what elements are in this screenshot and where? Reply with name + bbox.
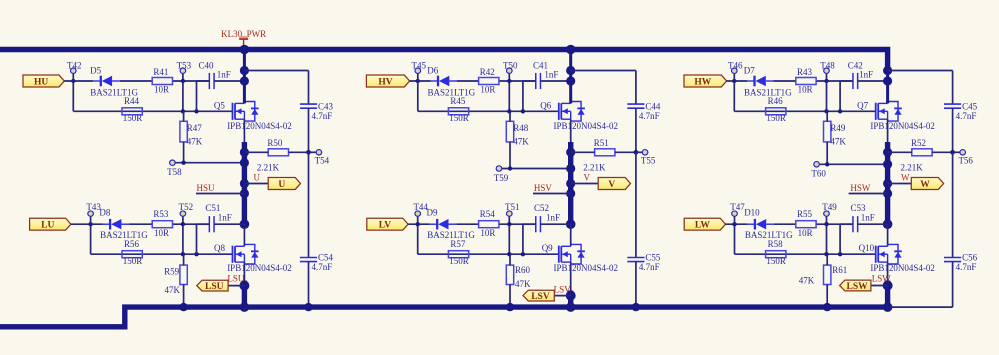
resistor R56 150R [122, 239, 142, 266]
wire tee down to gate row [826, 81, 828, 111]
test point T55 [636, 150, 656, 166]
test point T47 [730, 202, 745, 224]
capacitor C53 1nF [840, 203, 888, 254]
svg-text:R42: R42 [480, 67, 495, 77]
svg-text:R48: R48 [513, 123, 529, 133]
svg-text:R49: R49 [830, 123, 846, 133]
resistor R52 2.21K [888, 138, 953, 173]
transistor Q8 IPB120N04S4-02 [214, 243, 292, 273]
svg-text:Q7: Q7 [857, 100, 868, 110]
resistor R60 47K [506, 254, 531, 307]
svg-text:10R: 10R [798, 85, 813, 95]
wire cap column down [308, 152, 310, 257]
test point T59 [494, 166, 509, 183]
svg-text:C53: C53 [851, 203, 867, 213]
capacitor C51 1nF [197, 203, 245, 254]
svg-text:T59: T59 [494, 173, 509, 183]
svg-text:R47: R47 [187, 123, 203, 133]
wire cap to 2.21K row [308, 108, 310, 152]
svg-text:150R: 150R [449, 256, 469, 266]
wire gate row [418, 110, 559, 112]
resistor R49 47K [824, 111, 847, 164]
svg-text:1nF: 1nF [218, 213, 232, 223]
node HSU net label stub [196, 183, 244, 194]
port LW [684, 218, 725, 230]
capacitor C54 4.7nF [300, 252, 334, 271]
wire LU row [71, 223, 103, 225]
diode D8 BAS21LT1G [99, 208, 148, 241]
svg-text:IPB120N04S4-02: IPB120N04S4-02 [227, 121, 292, 131]
capacitor C42 1nF [840, 60, 888, 111]
svg-text:C52: C52 [534, 203, 549, 213]
resistor R41 10R [152, 67, 172, 95]
svg-text:T46: T46 [728, 60, 743, 70]
wire cap to GND bus [308, 262, 310, 308]
svg-text:T45: T45 [412, 60, 427, 70]
svg-text:47K: 47K [513, 136, 529, 146]
svg-text:Q10: Q10 [859, 243, 875, 253]
resistor R61 47K [799, 254, 848, 307]
svg-text:4.7nF: 4.7nF [956, 262, 977, 272]
svg-text:IPB120N04S4-02: IPB120N04S4-02 [227, 263, 292, 273]
svg-text:T55: T55 [641, 156, 656, 166]
svg-text:HSV: HSV [534, 183, 553, 193]
diode D5 BAS21LT1G [90, 66, 138, 98]
svg-text:T49: T49 [822, 202, 837, 212]
svg-text:Q8: Q8 [214, 243, 225, 253]
resistor R53 10R [152, 209, 172, 238]
wire gate row [73, 110, 232, 112]
svg-text:47K: 47K [515, 279, 531, 289]
capacitor C43 4.7nF [300, 101, 334, 120]
svg-text:10R: 10R [480, 228, 495, 238]
node HW junction [732, 79, 736, 83]
svg-text:T50: T50 [503, 60, 518, 70]
port LSW [840, 280, 888, 292]
svg-text:150R: 150R [766, 256, 786, 266]
power port KL30_PWR [221, 29, 266, 48]
wire KL30_PWR top power bus [0, 50, 888, 72]
wire HU row [64, 80, 93, 82]
wire low-side source to LS node [887, 262, 889, 285]
svg-text:47K: 47K [830, 136, 846, 146]
wire bus branch to cap column [244, 70, 308, 72]
resistor R43 10R [796, 67, 816, 95]
node LV junction [416, 222, 420, 226]
svg-text:R46: R46 [768, 96, 784, 106]
svg-text:1nF: 1nF [861, 213, 875, 223]
svg-text:HU: HU [34, 77, 48, 87]
diode D10 BAS21LT1G [744, 208, 793, 241]
wire tee down to low gate row [826, 224, 828, 254]
wire cap to 2.21K row [635, 108, 637, 152]
svg-text:T58: T58 [167, 167, 182, 177]
wire HV row [410, 80, 431, 82]
svg-text:W: W [901, 172, 910, 182]
resistor R47 47K [180, 111, 203, 162]
wire cap to GND bus [635, 262, 637, 308]
capacitor C55 4.7nF [627, 252, 661, 271]
wire port junction down to low 150R row [734, 224, 736, 254]
svg-text:4.7nF: 4.7nF [312, 111, 333, 121]
svg-text:10R: 10R [154, 228, 169, 238]
wire cap column down [952, 152, 954, 257]
resistor R55 10R [796, 209, 816, 238]
svg-text:HW: HW [694, 77, 711, 87]
svg-text:T48: T48 [820, 60, 835, 70]
wire phase node to low-side drain [570, 224, 572, 246]
svg-text:V: V [608, 180, 615, 190]
svg-text:LSW: LSW [846, 282, 868, 292]
svg-text:HV: HV [378, 77, 392, 87]
capacitor C40 1nF [197, 60, 245, 111]
svg-text:V: V [584, 172, 591, 182]
svg-text:R44: R44 [124, 96, 140, 106]
test point T56 [953, 150, 974, 166]
capacitor C44 4.7nF [627, 101, 661, 120]
svg-text:150R: 150R [449, 113, 469, 123]
wire tee down to low gate row [182, 224, 184, 254]
svg-text:R59: R59 [164, 266, 180, 276]
svg-text:C51: C51 [205, 203, 220, 213]
wire low gate row [91, 253, 233, 255]
port HU [23, 75, 64, 87]
diode D6 BAS21LT1G [427, 66, 475, 98]
wire port junction down to 150R row [417, 81, 419, 111]
resistor R44 150R [122, 96, 142, 123]
svg-text:1nF: 1nF [544, 69, 558, 79]
diode D7 BAS21LT1G [744, 66, 792, 98]
resistor R42 10R [479, 67, 499, 95]
capacitor C56 4.7nF [944, 252, 978, 271]
test point T60 [811, 162, 826, 179]
svg-text:R52: R52 [911, 138, 926, 148]
node HV junction [416, 79, 420, 83]
wire bus branch to cap column [571, 70, 636, 72]
test point T48 [820, 60, 835, 81]
port LV [367, 218, 408, 230]
capacitor C41 1nF [523, 60, 571, 111]
test point T44 [413, 202, 428, 224]
port W phase output [888, 178, 944, 190]
svg-text:D10: D10 [744, 208, 760, 218]
svg-text:LSU: LSU [205, 282, 224, 292]
wire port junction down to low 150R row [90, 224, 92, 254]
svg-text:U: U [254, 172, 261, 182]
svg-text:R56: R56 [124, 239, 140, 249]
svg-text:4.7nF: 4.7nF [956, 111, 977, 121]
port V phase output [571, 178, 631, 190]
svg-text:T42: T42 [67, 60, 82, 70]
wire gate row [734, 110, 875, 112]
wire phase drain from bus [886, 52, 889, 103]
svg-text:R41: R41 [153, 67, 168, 77]
wire port junction down to 150R row [72, 81, 74, 111]
svg-text:LSW: LSW [872, 274, 892, 284]
port HW [684, 75, 727, 87]
wire low gate row [735, 253, 876, 255]
svg-text:Q9: Q9 [542, 243, 553, 253]
wire phase node to low-side drain [243, 224, 245, 246]
test point T54 [309, 150, 330, 166]
svg-text:47K: 47K [165, 285, 181, 295]
svg-text:IPB120N04S4-02: IPB120N04S4-02 [870, 121, 935, 131]
svg-text:4.7nF: 4.7nF [639, 111, 660, 121]
svg-text:R55: R55 [797, 209, 813, 219]
port HV [366, 75, 409, 87]
svg-text:150R: 150R [123, 113, 143, 123]
svg-text:R50: R50 [267, 138, 283, 148]
svg-text:150R: 150R [766, 113, 786, 123]
port LSU [197, 280, 245, 292]
transistor Q5 IPB120N04S4-02 [214, 100, 292, 131]
resistor R58 150R [766, 239, 786, 266]
svg-text:2.21K: 2.21K [257, 162, 280, 172]
svg-text:Q5: Q5 [214, 100, 225, 110]
wire T59 row to phase node [502, 168, 571, 170]
wire phase node (thick) [243, 119, 245, 142]
node HU junction [71, 79, 75, 83]
svg-text:LSV: LSV [531, 292, 550, 302]
node R50 output [306, 150, 311, 155]
svg-text:T60: T60 [811, 169, 826, 179]
wire LW row [726, 223, 748, 225]
node R51 output [634, 150, 639, 155]
test point T50 [503, 60, 518, 81]
svg-text:R57: R57 [450, 239, 466, 249]
resistor R46 150R [766, 96, 786, 123]
svg-text:T53: T53 [177, 60, 192, 70]
svg-text:R43: R43 [797, 67, 813, 77]
capacitor C52 1nF [523, 203, 571, 254]
resistor R59 47K [164, 254, 187, 307]
wire low gate row [418, 253, 559, 255]
resistor R48 47K [506, 111, 529, 168]
svg-text:10R: 10R [154, 85, 169, 95]
svg-text:47K: 47K [799, 276, 815, 286]
svg-text:LU: LU [41, 221, 54, 231]
wire port junction down to low 150R row [417, 224, 419, 254]
resistor R54 10R [479, 209, 499, 238]
test point T58 [167, 160, 182, 177]
wire phase drain from bus [569, 52, 572, 103]
resistor R51 2.21K [571, 138, 636, 173]
svg-text:LSV: LSV [554, 284, 572, 294]
svg-text:150R: 150R [123, 256, 143, 266]
svg-text:HSU: HSU [197, 183, 216, 193]
capacitor C45 4.7nF [944, 101, 978, 120]
svg-text:1nF: 1nF [546, 213, 560, 223]
wire low-side source to LS node [570, 262, 572, 296]
svg-text:R60: R60 [515, 265, 531, 275]
wire port junction down to 150R row [733, 81, 735, 111]
transistor Q6 IPB120N04S4-02 [540, 100, 618, 131]
test point T45 [412, 60, 427, 81]
wire cap to 2.21K row [952, 108, 954, 152]
svg-text:R53: R53 [153, 209, 169, 219]
wire tee down to low gate row [508, 224, 510, 254]
test point T46 [728, 60, 743, 81]
svg-text:Q6: Q6 [540, 100, 551, 110]
svg-text:1nF: 1nF [217, 69, 231, 79]
svg-text:T54: T54 [315, 156, 330, 166]
svg-text:2.21K: 2.21K [901, 162, 924, 172]
resistor R50 2.21K [244, 138, 308, 173]
wire T60 row to phase node [820, 163, 888, 165]
svg-text:T51: T51 [505, 202, 520, 212]
svg-text:IPB120N04S4-02: IPB120N04S4-02 [554, 263, 619, 273]
wire low-side source to LS node [243, 262, 245, 286]
svg-text:R54: R54 [480, 209, 496, 219]
svg-text:LW: LW [695, 221, 710, 231]
svg-text:D7: D7 [744, 66, 755, 76]
resistor R57 150R [448, 239, 468, 266]
svg-text:47K: 47K [187, 136, 203, 146]
svg-text:LV: LV [379, 221, 391, 231]
svg-text:2.21K: 2.21K [583, 162, 606, 172]
svg-text:T56: T56 [958, 156, 973, 166]
wire LV row [408, 223, 430, 225]
node HSW net label stub [849, 183, 888, 194]
svg-text:10R: 10R [480, 85, 495, 95]
wire T58 row to phase node [176, 162, 245, 164]
wire phase drain from bus [243, 52, 246, 103]
svg-text:C40: C40 [199, 60, 215, 70]
transistor Q10 IPB120N04S4-02 [859, 243, 935, 273]
node HSV net label stub [533, 183, 571, 194]
svg-text:4.7nF: 4.7nF [639, 262, 660, 272]
wire phase node (thick) [570, 119, 572, 142]
test point T42 [67, 60, 82, 81]
wire phase node (thick) [887, 119, 889, 142]
svg-text:D8: D8 [99, 208, 110, 218]
wire tee down to gate row [508, 81, 510, 111]
resistor R45 150R [448, 96, 468, 123]
svg-text:D9: D9 [427, 208, 438, 218]
svg-text:10R: 10R [798, 228, 813, 238]
port LSV [523, 290, 571, 302]
svg-text:HSW: HSW [850, 183, 871, 193]
node LW junction [732, 222, 736, 226]
svg-text:D5: D5 [90, 66, 101, 76]
wire GND bottom bus [0, 307, 890, 327]
transistor Q9 IPB120N04S4-02 [542, 243, 618, 273]
svg-text:W: W [920, 180, 930, 190]
svg-text:IPB120N04S4-02: IPB120N04S4-02 [870, 263, 935, 273]
svg-text:R58: R58 [768, 239, 784, 249]
node R52 output [950, 150, 955, 155]
diode D9 BAS21LT1G [427, 208, 476, 241]
test point T43 [86, 202, 101, 224]
wire cap to GND bus end [952, 262, 954, 308]
svg-text:4.7nF: 4.7nF [312, 262, 333, 272]
wire cap column down [635, 152, 637, 257]
test point T49 [822, 202, 837, 224]
svg-text:D6: D6 [427, 66, 438, 76]
svg-text:T52: T52 [179, 202, 194, 212]
port LU [30, 218, 71, 230]
svg-text:LSU: LSU [227, 274, 245, 284]
test point T53 [177, 60, 192, 81]
wire phase node to low-side drain [887, 224, 889, 246]
wire bus branch to cap column [888, 70, 953, 72]
test point T52 [179, 202, 194, 224]
svg-text:1nF: 1nF [859, 69, 873, 79]
test point T51 [505, 202, 520, 224]
svg-text:R61: R61 [832, 265, 847, 275]
port U phase output [244, 178, 300, 190]
svg-text:IPB120N04S4-02: IPB120N04S4-02 [554, 121, 619, 131]
svg-text:R45: R45 [450, 96, 466, 106]
transistor Q7 IPB120N04S4-02 [857, 100, 935, 131]
svg-text:R51: R51 [594, 138, 609, 148]
node LU junction [88, 222, 92, 226]
wire tee down to gate row [182, 81, 184, 111]
svg-text:T47: T47 [730, 202, 745, 212]
svg-text:U: U [278, 180, 285, 190]
wire HW row [727, 80, 747, 82]
